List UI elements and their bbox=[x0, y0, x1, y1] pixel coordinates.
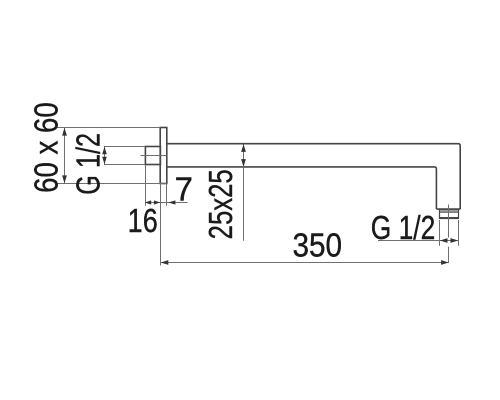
svg-text:350: 350 bbox=[293, 227, 343, 264]
svg-text:G 1/2: G 1/2 bbox=[371, 210, 436, 246]
svg-text:25x25: 25x25 bbox=[203, 169, 240, 239]
svg-text:60 x 60: 60 x 60 bbox=[28, 102, 65, 193]
svg-text:G 1/2: G 1/2 bbox=[70, 133, 107, 195]
svg-text:16: 16 bbox=[128, 204, 158, 240]
svg-text:7: 7 bbox=[175, 170, 193, 207]
